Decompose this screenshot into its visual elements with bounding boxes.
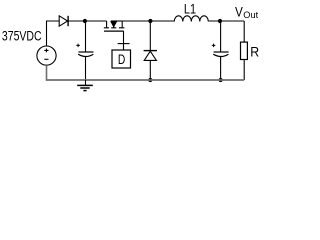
capacitor C2 xyxy=(213,52,228,57)
wire resistor to bottom rail xyxy=(243,60,245,81)
diode D1 xyxy=(59,16,68,26)
capacitor C1 top lead xyxy=(85,21,87,52)
wire diode D2 to bottom rail xyxy=(149,60,151,80)
wire diode to transistor xyxy=(68,20,107,22)
resistor R xyxy=(241,42,248,59)
junction diode D2 bottom xyxy=(148,78,152,82)
node A junction xyxy=(83,19,87,23)
svg-text:V: V xyxy=(235,3,243,19)
junction C2 bottom xyxy=(219,78,223,82)
capacitor C2 plus sign xyxy=(212,44,216,48)
svg-text:L1: L1 xyxy=(184,1,196,17)
label 375VDC xyxy=(2,28,42,44)
inductor L1 xyxy=(174,16,208,22)
label R xyxy=(250,44,259,60)
transistor Q1 xyxy=(104,21,125,31)
label VOut xyxy=(235,3,243,19)
wire inductor to output corner xyxy=(208,20,244,22)
capacitor C2 bottom lead xyxy=(220,57,222,80)
wire node B down to diode D2 xyxy=(149,21,151,51)
source V1 xyxy=(37,46,56,65)
wire Q1 gate to driver xyxy=(123,31,125,50)
driver U1 box D xyxy=(112,50,131,68)
wire corner to resistor xyxy=(243,21,245,42)
svg-text:R: R xyxy=(250,44,259,60)
wire transistor to inductor xyxy=(122,20,174,22)
ground xyxy=(77,80,93,91)
wire source top to rail xyxy=(47,21,60,46)
svg-text:D: D xyxy=(118,52,126,68)
wire source bottom to rail xyxy=(46,65,48,81)
driver input tick xyxy=(118,43,130,45)
capacitor C1 bottom lead xyxy=(85,57,87,80)
node B junction xyxy=(148,19,152,23)
capacitor C1 plus sign xyxy=(76,44,80,48)
label L1 xyxy=(184,1,196,17)
svg-text:375VDC: 375VDC xyxy=(2,28,42,44)
bottom rail wire xyxy=(47,79,245,81)
svg-text:Out: Out xyxy=(243,10,258,20)
node C junction xyxy=(218,19,222,23)
diode D2 xyxy=(144,51,157,61)
capacitor C1 xyxy=(78,52,93,57)
capacitor C2 top lead xyxy=(220,21,222,52)
